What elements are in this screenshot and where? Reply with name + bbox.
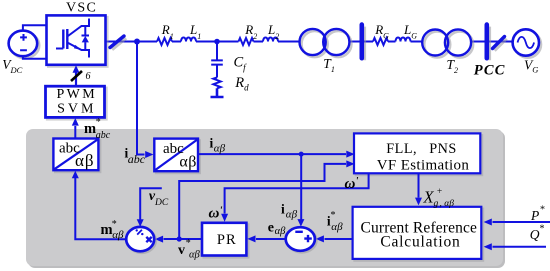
svg-text:e: e xyxy=(268,220,274,235)
svg-text:PR: PR xyxy=(217,232,237,248)
svg-text:abc: abc xyxy=(96,130,111,141)
svg-text:PWM: PWM xyxy=(56,87,97,102)
svg-text:αβ: αβ xyxy=(112,229,124,241)
svg-text:6: 6 xyxy=(86,71,91,82)
svg-text:m: m xyxy=(84,121,96,137)
svg-text:*: * xyxy=(540,205,545,216)
svg-text:VSC: VSC xyxy=(66,0,97,15)
svg-text:*: * xyxy=(540,224,545,235)
svg-text:αβ: αβ xyxy=(179,154,197,171)
svg-text:+: + xyxy=(437,187,442,197)
svg-text:P: P xyxy=(530,208,539,223)
svg-text:Q: Q xyxy=(530,227,540,242)
svg-text:FLL, PNS: FLL, PNS xyxy=(386,141,456,157)
svg-text:DC: DC xyxy=(154,198,169,208)
svg-text:αβ: αβ xyxy=(331,221,343,233)
svg-text:*: * xyxy=(186,238,191,249)
svg-text:, αβ: , αβ xyxy=(440,199,455,209)
svg-text:αβ: αβ xyxy=(286,208,298,220)
svg-text:*: * xyxy=(331,210,336,221)
svg-text:m: m xyxy=(101,222,113,238)
svg-text:*: * xyxy=(96,117,101,128)
svg-text:VF Estimation: VF Estimation xyxy=(377,157,470,173)
svg-text:g: g xyxy=(434,199,439,209)
svg-text:αβ: αβ xyxy=(75,151,95,170)
svg-text:SVM: SVM xyxy=(57,101,96,116)
svg-text:αβ: αβ xyxy=(214,143,226,155)
svg-text:Calculation: Calculation xyxy=(380,233,460,250)
svg-text:PCC: PCC xyxy=(474,62,506,78)
svg-text:v: v xyxy=(178,243,185,258)
svg-text:abc: abc xyxy=(128,152,146,166)
svg-text:αβ: αβ xyxy=(189,250,201,261)
svg-text:i: i xyxy=(281,202,285,217)
svg-text:αβ: αβ xyxy=(275,226,287,237)
